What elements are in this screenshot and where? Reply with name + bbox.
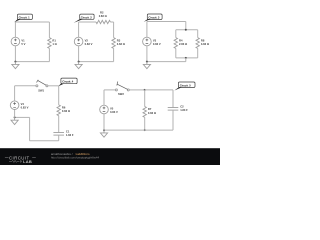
svg-text:V1: V1 xyxy=(21,38,25,42)
wire bottom c3 xyxy=(147,61,186,63)
node Circuit_3 label box xyxy=(144,14,162,22)
svg-text:0.83 V: 0.83 V xyxy=(85,42,93,46)
svg-text:1.83 F: 1.83 F xyxy=(180,108,188,112)
svg-text:Circuit_1: Circuit_1 xyxy=(19,15,31,19)
svg-text:SW2: SW2 xyxy=(118,92,124,96)
wire top-right c5 xyxy=(145,89,173,91)
logo right dash xyxy=(32,156,36,158)
logo left dash xyxy=(5,156,9,158)
wire parallel top c3 xyxy=(176,29,198,31)
resistor R8 xyxy=(196,38,210,49)
node Circuit_2 label box xyxy=(74,14,95,23)
wire left upper c3 xyxy=(146,22,148,38)
junction c4 xyxy=(14,116,16,118)
svg-text:C1: C1 xyxy=(66,129,70,133)
ground c3 xyxy=(143,62,150,69)
wire left lower c2 xyxy=(78,46,80,62)
wire jog vertical c4 xyxy=(29,117,31,140)
svg-text:htto://circuitlab.com/cwqtyqrt: htto://circuitlab.com/cwqtyqrtgjrh6w44 xyxy=(51,156,100,160)
voltage source V5 xyxy=(100,105,118,114)
ground c1 xyxy=(12,62,19,69)
svg-text:Circuit_4: Circuit_4 xyxy=(62,80,74,84)
svg-text:R4: R4 xyxy=(179,38,183,42)
wire left upper c4 xyxy=(14,86,16,101)
wire right lower c1 xyxy=(48,48,50,61)
wire bottom c4 xyxy=(30,140,59,142)
svg-text:V2: V2 xyxy=(85,38,89,42)
wire bottom c1 xyxy=(15,61,49,63)
wire jog horizontal c4 xyxy=(15,116,30,118)
wire right upper c2 xyxy=(113,22,115,38)
wire left lower c3 xyxy=(146,46,148,62)
wire right lower c4 xyxy=(58,135,60,141)
wire branch R8 upper xyxy=(197,30,199,38)
wire branch R4 lower xyxy=(175,48,177,58)
junction c5 bottom mid xyxy=(144,129,146,131)
svg-text:Circuit_3: Circuit_3 xyxy=(148,15,160,19)
voltage source V4 xyxy=(10,101,28,110)
wire left upper c5 xyxy=(103,90,105,105)
svg-text:Circuit_5: Circuit_5 xyxy=(180,83,192,87)
wire top c1 xyxy=(15,21,49,23)
logo wire zigzag xyxy=(9,160,19,162)
ground c5 xyxy=(100,130,107,137)
wire bottom c2 xyxy=(79,61,114,63)
wire top-left c5 xyxy=(104,89,115,91)
wire top-right c4 xyxy=(48,85,59,87)
resistor R1 xyxy=(48,38,58,49)
svg-text:1.83 F: 1.83 F xyxy=(66,133,74,137)
junction c3 bottom xyxy=(185,57,187,59)
ground c4 xyxy=(11,117,18,124)
svg-text:R3: R3 xyxy=(117,38,121,42)
switch SW1 xyxy=(36,80,48,93)
watermark bar background xyxy=(0,148,220,165)
node Circuit_4 label box xyxy=(58,78,77,86)
voltage source V1 xyxy=(11,37,26,46)
voltage source V3 xyxy=(143,37,161,46)
wire top-left c4 xyxy=(15,85,36,87)
junction c5 bottom left xyxy=(103,129,105,131)
wire left lower c5 xyxy=(103,114,105,130)
wire left lower c1 xyxy=(14,46,16,62)
wire right upper c1 xyxy=(48,22,50,38)
svg-text:Lab4Circs: Lab4Circs xyxy=(76,152,90,156)
wire right upper c4 xyxy=(58,86,60,105)
resistor R4 xyxy=(174,38,188,49)
wire left lower c4 xyxy=(14,110,16,118)
junction c1 xyxy=(14,61,16,63)
svg-text:LAB: LAB xyxy=(23,159,32,164)
svg-text:C2: C2 xyxy=(180,104,184,108)
junction c5 top xyxy=(144,89,146,91)
wire R7 upper xyxy=(144,90,146,107)
capacitor C1 xyxy=(53,129,73,137)
svg-text:0.83 Ω: 0.83 Ω xyxy=(148,111,157,115)
resistor R6 xyxy=(57,105,71,116)
node Circuit_5 label box xyxy=(174,82,195,91)
wire bottom c5 xyxy=(104,129,173,131)
wire feed up from bottom c3 xyxy=(185,58,187,62)
svg-text:R2: R2 xyxy=(100,11,104,15)
junction c3 top xyxy=(185,29,187,31)
svg-text:0.83 Ω: 0.83 Ω xyxy=(62,109,71,113)
svg-text:0.83 V: 0.83 V xyxy=(110,110,118,114)
svg-text:R8: R8 xyxy=(201,38,205,42)
svg-text:2.83 Ω: 2.83 Ω xyxy=(99,14,108,18)
svg-text:3.83 Ω: 3.83 Ω xyxy=(117,42,126,46)
wire top-left c2 xyxy=(79,21,96,23)
wire C2 upper xyxy=(172,90,174,108)
svg-text:R1: R1 xyxy=(52,38,56,42)
svg-text:V3: V3 xyxy=(153,38,157,42)
wire parallel bottom c3 xyxy=(176,57,198,59)
junction c3 left xyxy=(146,61,148,63)
resistor R3 xyxy=(112,38,126,49)
svg-text:V4: V4 xyxy=(21,102,25,106)
junction c2 xyxy=(78,61,80,63)
svg-text:3.83 Ω: 3.83 Ω xyxy=(201,42,210,46)
svg-text:R6: R6 xyxy=(62,106,66,110)
wire left upper c2 xyxy=(78,22,80,37)
wire C2 lower xyxy=(172,110,174,130)
capacitor C2 xyxy=(168,104,188,112)
wire right mid c4 xyxy=(58,116,60,133)
ground c2 xyxy=(75,62,82,69)
wire R7 lower xyxy=(144,117,146,130)
wire feed down c3 xyxy=(185,22,187,30)
wire left upper c1 xyxy=(14,22,16,37)
svg-text:2.83 Ω: 2.83 Ω xyxy=(179,42,188,46)
svg-text:0.83 V: 0.83 V xyxy=(153,42,161,46)
wire top-right c2 xyxy=(110,21,113,23)
wire branch R4 upper xyxy=(175,30,177,38)
wire branch R8 lower xyxy=(197,48,199,58)
svg-text:0.83 V: 0.83 V xyxy=(21,106,29,110)
svg-text:R7: R7 xyxy=(148,107,152,111)
logo battery ticks xyxy=(19,160,21,163)
svg-text:SW1: SW1 xyxy=(38,88,44,92)
resistor R2 xyxy=(96,11,110,24)
voltage source V2 xyxy=(74,37,92,46)
wire right lower c2 xyxy=(113,48,115,61)
node Circuit_1 label box xyxy=(14,14,32,22)
wire top-mid c5 xyxy=(129,89,144,91)
resistor R7 xyxy=(143,107,157,118)
wire top c3 xyxy=(147,21,186,23)
svg-text:5 V: 5 V xyxy=(21,42,25,46)
svg-text:V5: V5 xyxy=(110,106,114,110)
svg-text:Circuit_2: Circuit_2 xyxy=(81,15,93,19)
switch SW2 xyxy=(115,82,129,97)
